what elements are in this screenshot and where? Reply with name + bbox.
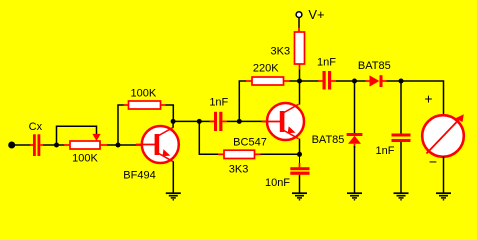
wire pot to base node	[107, 144, 118, 146]
node B (BF494 base junction)	[116, 143, 121, 148]
wire base node up to 100K resistor	[118, 105, 124, 145]
wire meter to ground	[443, 157, 445, 194]
potentiometer 100K wiper arrow	[92, 134, 100, 141]
ground (shunt diode)	[347, 193, 362, 200]
svg-text:BC547: BC547	[233, 137, 267, 149]
wire BF494 collector up	[172, 121, 174, 127]
svg-text:Cx: Cx	[29, 121, 43, 133]
capacitor 1nF (coupling)	[199, 112, 227, 131]
wire collector node to coupling cap	[173, 120, 199, 122]
svg-text:BAT85: BAT85	[358, 60, 391, 72]
capacitor 1nF (filter)	[392, 81, 411, 193]
wire BF494 emitter down	[172, 161, 174, 193]
meter M1	[422, 114, 464, 157]
wire BC547 emitter down	[299, 139, 301, 155]
ground (BF494 emitter)	[166, 193, 181, 200]
wire 100K to collector node	[166, 105, 174, 122]
node E (BC547 base junction)	[237, 119, 242, 124]
resistor 220K	[246, 77, 290, 85]
node J (output junction)	[399, 79, 404, 84]
wire base node up to 220K	[239, 81, 246, 121]
diode D2 BAT85 (shunt)	[347, 133, 363, 148]
svg-text:10nF: 10nF	[265, 177, 290, 189]
wire 3K3 to emitter node	[261, 153, 300, 155]
svg-text:3K3: 3K3	[271, 46, 291, 58]
wire Cx to pot node	[43, 144, 57, 146]
wire output cap to detector node	[336, 80, 355, 82]
wire V+ down to 3K3	[298, 18, 300, 29]
wire base node to BC547	[239, 120, 267, 122]
svg-text:100K: 100K	[72, 153, 98, 165]
wire output node to meter	[401, 81, 444, 116]
svg-text:100K: 100K	[131, 87, 157, 99]
node IN (input terminal)	[8, 142, 15, 149]
node A (pot left junction)	[54, 143, 59, 148]
node C (BF494 collector)	[171, 119, 176, 124]
capacitor 1nF (output)	[300, 71, 336, 90]
capacitor 10nF	[290, 154, 309, 193]
wire 220K to supply node	[290, 80, 300, 82]
svg-text:BAT85: BAT85	[312, 134, 345, 146]
wire shunt diode to ground	[354, 146, 356, 193]
svg-text:1nF: 1nF	[317, 56, 336, 68]
svg-text:1nF: 1nF	[209, 97, 228, 109]
svg-text:−: −	[429, 154, 437, 170]
terminal V+	[296, 12, 302, 18]
svg-text:+: +	[424, 91, 432, 107]
node G (supply junction)	[297, 79, 302, 84]
resistor 3K3 (emitter)	[218, 150, 261, 158]
node F (emitter junction)	[297, 152, 302, 157]
node D (coupling cap left)	[197, 119, 202, 124]
capacitor Cx	[30, 134, 43, 156]
resistor 3K3 (collector)	[295, 28, 305, 70]
svg-text:1nF: 1nF	[376, 145, 395, 157]
wire 3K3 emitter branch from node D down	[199, 121, 218, 154]
wire 3K3 bottom to supply node	[299, 70, 301, 82]
wire input to Cx	[12, 144, 31, 146]
node H (detector junction)	[352, 79, 357, 84]
wire coupling cap to base node	[227, 120, 239, 122]
svg-text:V+: V+	[308, 7, 324, 22]
potentiometer 100K	[57, 141, 108, 149]
resistor 100K (feedback)	[124, 101, 166, 109]
diode D1 BAT85 (series)	[355, 75, 387, 87]
svg-text:BF494: BF494	[123, 170, 155, 182]
wire detector node down to shunt diode	[354, 81, 356, 133]
ground (10nF)	[292, 193, 307, 200]
transistor Q1 BF494	[136, 126, 179, 163]
ground (filter cap)	[394, 193, 409, 200]
svg-text:220K: 220K	[253, 63, 279, 75]
wire pot wiper loop	[57, 126, 97, 145]
wire series diode to output node	[387, 80, 402, 82]
ground (meter)	[436, 193, 451, 200]
wire base node to BF494	[118, 144, 142, 146]
svg-text:3K3: 3K3	[229, 164, 249, 176]
wire BC547 collector up	[299, 81, 301, 105]
transistor Q2 BC547	[262, 103, 305, 140]
